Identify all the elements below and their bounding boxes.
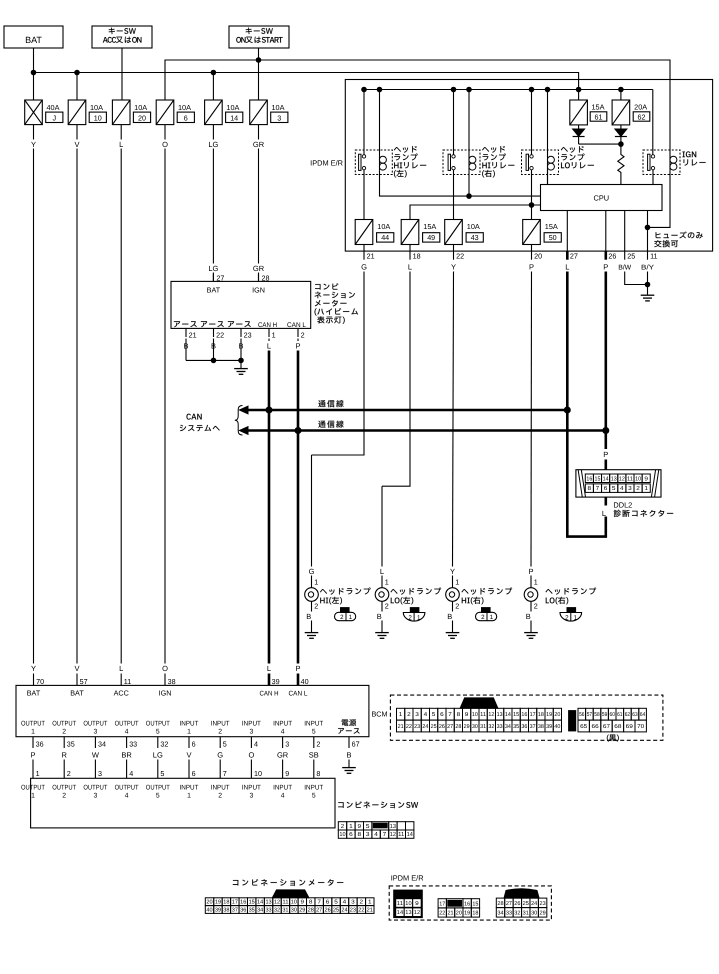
svg-text:OUTPUT: OUTPUT	[52, 785, 76, 792]
svg-text:1: 1	[349, 614, 353, 621]
wire relay1 coil to CPU	[380, 170, 541, 196]
pin 10 SW	[254, 769, 262, 778]
svg-text:1: 1	[349, 824, 353, 830]
label SW OUTPUT 3	[83, 785, 107, 800]
svg-text:5: 5	[156, 793, 160, 800]
label wire V top	[74, 140, 79, 149]
wire relay3 coil to CPU	[547, 170, 549, 184]
wire CAN H meter to BCM	[268, 339, 270, 686]
wire BCM to SW 10	[313, 760, 315, 779]
svg-text:12: 12	[414, 910, 420, 916]
svg-text:40: 40	[206, 908, 212, 914]
wire bus to relay2 coil	[468, 90, 470, 171]
svg-text:65: 65	[580, 724, 587, 730]
svg-text:15: 15	[513, 712, 519, 718]
svg-text:CAN L: CAN L	[287, 322, 306, 329]
svg-text:IPDM E/R: IPDM E/R	[310, 159, 343, 168]
fuse 20A 62	[612, 100, 650, 125]
svg-text:29: 29	[299, 908, 305, 914]
label BCM OUTPUT 5	[146, 721, 170, 736]
svg-text:30: 30	[472, 724, 478, 730]
svg-text:3: 3	[94, 729, 98, 736]
svg-text:L: L	[267, 341, 271, 350]
wire bus to fuse61	[578, 90, 580, 101]
svg-text:12: 12	[390, 831, 396, 838]
headlamp LO(右)	[524, 567, 538, 639]
wire B to ground	[348, 760, 350, 768]
label meter earth1	[174, 321, 197, 327]
svg-text:33: 33	[265, 908, 271, 914]
svg-text:IGN: IGN	[159, 689, 172, 698]
svg-text:LG: LG	[208, 264, 218, 273]
svg-text:GR: GR	[253, 140, 265, 149]
svg-text:43: 43	[471, 233, 479, 242]
svg-text:10A: 10A	[178, 103, 191, 112]
combination meter box	[171, 281, 311, 328]
svg-text:39: 39	[272, 677, 280, 686]
svg-text:2: 2	[408, 614, 412, 621]
svg-text:11: 11	[627, 476, 633, 482]
pin 2 meter bottom	[298, 328, 305, 339]
pin 20 IPDM	[529, 251, 542, 271]
connector BCM white	[397, 698, 562, 732]
svg-text:V: V	[186, 750, 191, 759]
svg-text:67: 67	[352, 739, 360, 748]
svg-text:36: 36	[521, 724, 527, 730]
node can2 meter	[295, 428, 301, 434]
svg-text:2: 2	[385, 601, 389, 610]
svg-text:12: 12	[274, 900, 280, 906]
wire BCM to SW 9	[282, 760, 284, 779]
svg-text:8: 8	[358, 831, 362, 838]
pin 22 meter bottom	[214, 328, 225, 339]
svg-text:OUTPUT: OUTPUT	[21, 785, 45, 792]
label wire L CANH meter	[267, 341, 271, 350]
label wire P CAN BCM	[295, 664, 300, 673]
svg-text:3: 3	[366, 831, 370, 838]
svg-text:2: 2	[301, 331, 305, 340]
wire IPDM26 CAN down	[604, 272, 607, 431]
svg-text:14: 14	[230, 113, 238, 122]
wire CPU pin25	[624, 211, 626, 252]
svg-text:10: 10	[94, 113, 102, 122]
relay headlamp HI right	[443, 150, 480, 175]
wire ACC box to fuse 20	[121, 48, 123, 100]
svg-text:B: B	[306, 612, 311, 621]
svg-text:21: 21	[189, 331, 197, 340]
node IPDM bus	[576, 87, 581, 92]
wire Y fuse to BCM	[33, 125, 35, 686]
svg-text:L: L	[565, 262, 569, 271]
svg-text:13: 13	[390, 823, 396, 830]
svg-text:1: 1	[417, 614, 421, 621]
wire P IPDM to lamp	[530, 272, 533, 567]
svg-text:23: 23	[244, 331, 252, 340]
wire BAT box to bus	[33, 48, 35, 73]
svg-text:7: 7	[448, 712, 452, 718]
svg-text:33: 33	[129, 739, 137, 748]
svg-text:P: P	[295, 664, 300, 673]
svg-text:4: 4	[281, 793, 285, 800]
svg-text:ACC: ACC	[114, 689, 129, 698]
fuse 10A 10	[68, 100, 106, 125]
svg-text:40: 40	[554, 724, 560, 730]
label SW OUTPUT 4	[115, 785, 139, 800]
svg-text:GR: GR	[253, 264, 265, 273]
pin 35 BCM bottom	[64, 737, 75, 749]
svg-text:DDL2: DDL2	[613, 501, 632, 510]
label meter IGN	[252, 286, 265, 295]
label BCM connector black	[607, 734, 619, 741]
label wire V BCM	[74, 664, 79, 673]
svg-text:1: 1	[534, 577, 538, 586]
svg-text:P: P	[603, 450, 608, 459]
svg-text:CAN H: CAN H	[258, 322, 277, 329]
fuse 40A J	[25, 100, 63, 125]
node IGN-GR	[256, 58, 261, 63]
wire V fuse to BCM	[76, 125, 78, 686]
svg-text:1: 1	[385, 577, 389, 586]
ground IPDM	[641, 295, 655, 301]
svg-text:3: 3	[351, 900, 355, 906]
pin 34 BCM bottom	[95, 737, 106, 749]
IPDM inner bus	[364, 90, 653, 155]
pin 57 BCM top	[80, 677, 88, 686]
svg-text:6: 6	[192, 739, 196, 748]
svg-text:1: 1	[455, 577, 459, 586]
svg-text:11: 11	[124, 677, 131, 686]
svg-text:18: 18	[413, 252, 421, 261]
wire GR stub to meter	[258, 274, 260, 282]
svg-text:BR: BR	[121, 750, 132, 759]
svg-text:2: 2	[534, 601, 538, 610]
power source box BAT	[4, 26, 63, 48]
svg-text:25: 25	[523, 901, 529, 907]
svg-text:L: L	[119, 140, 123, 149]
svg-text:J: J	[53, 113, 57, 122]
svg-text:2: 2	[341, 823, 345, 830]
svg-text:B/Y: B/Y	[641, 263, 654, 271]
pin 3 BCM bottom	[283, 737, 290, 749]
svg-text:BAT: BAT	[25, 35, 42, 45]
label wire L BCM	[119, 664, 123, 673]
svg-text:Y: Y	[31, 664, 36, 673]
node IPDM bus	[451, 87, 456, 92]
svg-text:58: 58	[594, 712, 599, 718]
svg-text:21: 21	[448, 911, 454, 917]
svg-text:OUTPUT: OUTPUT	[52, 721, 76, 728]
svg-text:31: 31	[523, 910, 529, 916]
label BCM OUTPUT 2	[52, 721, 76, 736]
pin 7 SW	[223, 769, 227, 778]
label wire GR top	[253, 140, 265, 149]
resistor R	[618, 144, 624, 184]
wire ON/START box to fuse 3	[258, 48, 260, 100]
wire meter gnd1	[185, 339, 187, 361]
svg-text:59: 59	[602, 712, 607, 718]
svg-text:17: 17	[439, 901, 445, 907]
svg-text:1: 1	[644, 486, 648, 492]
label relay HI left	[394, 146, 426, 177]
wire CANH to DDL2	[567, 410, 606, 537]
svg-text:V: V	[74, 140, 79, 149]
pin 23 meter bottom	[241, 328, 252, 339]
node BAT-Y	[31, 70, 36, 75]
svg-text:15A: 15A	[423, 222, 436, 231]
label BCM CAN L	[289, 691, 308, 698]
svg-text:21: 21	[398, 724, 404, 730]
label wire LG at meter	[208, 264, 218, 273]
label SW OUTPUT 1	[21, 785, 45, 800]
svg-text:CAN L: CAN L	[289, 691, 308, 698]
wire meter gnd3	[240, 339, 242, 361]
wire relay3 out to CPU and fuse49	[410, 205, 541, 220]
svg-text:26: 26	[325, 908, 331, 914]
svg-text:30: 30	[531, 910, 537, 916]
svg-text:2: 2	[636, 485, 640, 492]
pin 6 BCM bottom	[189, 737, 196, 749]
wire bus to fuse 10	[76, 73, 78, 101]
label IPDM E/R	[310, 159, 343, 168]
svg-text:34: 34	[257, 908, 263, 914]
svg-text:15: 15	[472, 901, 478, 907]
wire bus to relay1 switch	[363, 90, 365, 155]
svg-text:9: 9	[465, 712, 469, 718]
pin 67 BCM bottom	[349, 737, 360, 749]
pin 33 BCM bottom	[127, 737, 138, 749]
label CAN system	[180, 414, 220, 432]
wire bus to fuse 14	[212, 73, 214, 101]
wire fuse50 out	[531, 245, 533, 252]
svg-text:V: V	[74, 664, 79, 673]
label relay HI right	[482, 146, 514, 177]
wire fuse49 out	[409, 245, 411, 252]
label SW INPUT 3	[242, 785, 261, 800]
wire meter gnd bus	[186, 359, 241, 361]
svg-text:33: 33	[506, 910, 512, 916]
svg-text:P: P	[603, 262, 608, 271]
svg-text:13: 13	[265, 900, 271, 906]
svg-text:OUTPUT: OUTPUT	[83, 785, 107, 792]
svg-text:24: 24	[422, 724, 428, 730]
svg-text:11: 11	[480, 712, 486, 718]
wire L IPDM to lamp	[382, 272, 410, 567]
svg-text:W: W	[92, 750, 100, 759]
svg-text:O: O	[162, 140, 168, 149]
wire CPU pin26	[605, 211, 607, 252]
svg-text:50: 50	[549, 233, 557, 242]
svg-text:2: 2	[316, 739, 320, 748]
headlamp HI(左)	[305, 567, 319, 639]
wire IGN switch to CPU	[652, 170, 654, 185]
svg-text:3: 3	[285, 739, 289, 748]
svg-text:5: 5	[366, 824, 370, 830]
svg-text:Y: Y	[450, 567, 455, 576]
svg-text:69: 69	[626, 724, 633, 730]
svg-text:1: 1	[272, 331, 276, 340]
fuse 10A 14	[205, 100, 243, 125]
label headlamp HI(左)	[320, 588, 371, 605]
svg-text:LG: LG	[153, 750, 163, 759]
svg-text:23: 23	[540, 901, 546, 907]
svg-text:20: 20	[554, 712, 560, 718]
svg-text:25: 25	[627, 252, 635, 261]
svg-text:40A: 40A	[47, 103, 60, 112]
svg-text:9: 9	[301, 900, 305, 906]
svg-text:18: 18	[538, 712, 544, 718]
svg-text:12: 12	[488, 712, 494, 718]
label wire GR	[277, 750, 289, 759]
label fuses-only note	[654, 232, 703, 248]
diode D2	[615, 125, 627, 144]
svg-text:31: 31	[282, 908, 288, 914]
svg-text:11: 11	[398, 832, 404, 838]
pin 4 BCM bottom	[251, 737, 258, 749]
svg-text:3: 3	[94, 793, 98, 800]
svg-text:8: 8	[316, 769, 320, 778]
svg-text:4: 4	[281, 729, 285, 736]
label meter CAN L	[287, 322, 306, 329]
label wire O BCM	[162, 664, 168, 673]
svg-text:35: 35	[249, 908, 255, 914]
wire B/W to ground	[625, 272, 648, 285]
CPU box	[541, 185, 663, 211]
wire relay3 switch to fuse50	[531, 170, 533, 220]
svg-text:19: 19	[215, 900, 221, 906]
label wire R	[61, 750, 67, 759]
svg-text:13: 13	[405, 910, 411, 916]
wire G IPDM to lamp	[312, 272, 365, 567]
relay headlamp HI left	[355, 150, 392, 175]
wire CPU pin11	[647, 211, 649, 252]
pin 5 SW	[160, 769, 164, 778]
svg-text:IGN: IGN	[252, 286, 265, 295]
svg-text:34: 34	[497, 910, 503, 916]
wire bus to fuse62	[620, 90, 622, 101]
svg-text:17: 17	[530, 712, 536, 718]
connector combination meter	[205, 890, 374, 914]
svg-text:2: 2	[340, 614, 344, 621]
node meter gnd a	[211, 358, 216, 363]
svg-text:P: P	[529, 262, 534, 271]
svg-text:INPUT: INPUT	[180, 785, 199, 792]
relay IGN	[643, 150, 680, 175]
svg-text:23: 23	[414, 724, 420, 730]
svg-text:3: 3	[415, 712, 419, 718]
svg-text:16: 16	[464, 901, 470, 907]
svg-text:3: 3	[628, 485, 632, 492]
svg-text:5: 5	[156, 729, 160, 736]
svg-text:LG: LG	[208, 140, 218, 149]
pin 8 SW	[316, 769, 320, 778]
connector IPDM 1	[394, 890, 423, 918]
pin 27 meter	[216, 274, 224, 283]
svg-text:19: 19	[546, 712, 552, 718]
wire BCM to SW 1	[32, 760, 34, 779]
svg-text:G: G	[217, 750, 223, 759]
svg-text:1: 1	[399, 712, 403, 718]
svg-text:B: B	[377, 612, 382, 621]
label DDL2	[613, 501, 673, 517]
svg-text:4: 4	[129, 769, 133, 778]
pin 28 meter	[262, 274, 270, 283]
label headlamp LO(右)	[546, 588, 597, 605]
wire IGN coil to pin11	[648, 170, 671, 227]
fuse 10A 43	[445, 220, 484, 245]
svg-text:BAT: BAT	[27, 689, 41, 698]
svg-text:20: 20	[456, 911, 462, 917]
combination SW box	[31, 778, 335, 828]
svg-text:19: 19	[464, 911, 470, 917]
svg-text:O: O	[162, 664, 168, 673]
svg-text:SB: SB	[309, 750, 319, 759]
comm line 1	[240, 406, 568, 414]
label SW INPUT 5	[304, 785, 323, 800]
label BCM BAT	[70, 689, 84, 698]
label BCM CAN H	[260, 691, 279, 698]
svg-text:62: 62	[638, 112, 646, 121]
svg-text:27: 27	[316, 908, 322, 914]
svg-text:33: 33	[497, 724, 503, 730]
wire fuse43 out	[453, 245, 455, 252]
svg-text:R: R	[61, 750, 67, 759]
svg-text:1: 1	[36, 769, 40, 778]
svg-text:14: 14	[397, 910, 403, 916]
IPDM connector dashed box	[389, 886, 551, 920]
svg-text:2: 2	[62, 729, 66, 736]
svg-text:INPUT: INPUT	[304, 785, 323, 792]
svg-text:OUTPUT: OUTPUT	[146, 721, 170, 728]
wire CAN L meter to BCM	[297, 339, 299, 686]
label wire P CANL meter	[295, 341, 300, 350]
svg-text:OUTPUT: OUTPUT	[21, 721, 45, 728]
svg-text:CAN H: CAN H	[260, 691, 279, 698]
svg-text:32: 32	[274, 908, 280, 914]
svg-text:2: 2	[67, 769, 71, 778]
svg-text:3: 3	[277, 113, 281, 122]
svg-text:39: 39	[546, 724, 552, 730]
pin 1 meter bottom	[269, 328, 276, 339]
svg-text:30: 30	[291, 908, 297, 914]
label BCM INPUT 3	[242, 721, 261, 736]
svg-text:10: 10	[635, 475, 641, 482]
svg-text:60: 60	[610, 712, 615, 718]
pin 32 BCM bottom	[158, 737, 169, 749]
label relay IGN	[682, 151, 705, 165]
svg-text:CPU: CPU	[593, 193, 609, 202]
pin 3 SW	[98, 769, 102, 778]
svg-text:P: P	[528, 567, 533, 576]
svg-text:32: 32	[514, 910, 520, 916]
wire BCM to SW 2	[63, 760, 65, 779]
svg-text:4: 4	[125, 793, 129, 800]
svg-text:1: 1	[314, 577, 318, 586]
svg-text:BCM: BCM	[372, 710, 388, 719]
comm line 2	[240, 427, 606, 435]
wire diode join	[579, 143, 621, 145]
ground connector HI left	[335, 608, 356, 622]
svg-text:29: 29	[540, 910, 546, 916]
label wire V	[186, 750, 191, 759]
pin 18 IPDM	[408, 251, 421, 271]
svg-text:10: 10	[405, 901, 411, 907]
svg-text:28: 28	[497, 901, 503, 907]
wire BCM to SW 5	[157, 760, 159, 779]
wire bus to relay3 switch	[531, 90, 533, 155]
pin 11 BCM top	[124, 677, 131, 686]
label BCM ACC	[114, 689, 129, 698]
svg-text:18: 18	[223, 900, 229, 906]
